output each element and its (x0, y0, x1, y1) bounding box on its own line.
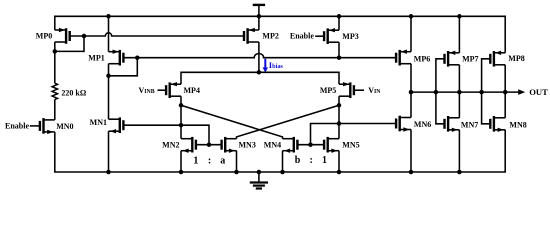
transistor MP4 (166, 82, 181, 98)
wire MP0 gate line to MP2 gate (69, 33, 244, 36)
junction midline dots (409, 90, 414, 95)
svg-text:MN4: MN4 (264, 141, 281, 150)
wire MP1 diode loop (109, 58, 138, 76)
wire MN4-MN5 gate line (298, 144, 324, 146)
svg-text:VINB: VINB (139, 86, 155, 95)
svg-text:MN8: MN8 (509, 120, 526, 129)
svg-text:OUT: OUT (529, 87, 548, 97)
wire MP8-MN8 gate tie (482, 59, 491, 124)
output arrow OUT (518, 89, 525, 95)
wire MN3 source to rail (236, 151, 238, 172)
svg-text:VIN: VIN (368, 86, 381, 95)
svg-text::: : (208, 155, 211, 166)
wire cross-couple node A to MN4 drain (181, 105, 283, 138)
svg-text:MN3: MN3 (239, 141, 256, 150)
wire cross-couple node B to MN3 drain (237, 105, 340, 138)
wire ground bottom rail (55, 130, 505, 172)
svg-text:MN1: MN1 (90, 118, 107, 127)
transistor MN6 (396, 116, 411, 132)
wire tail current box (181, 72, 339, 84)
wire node B to MN6 gate (339, 123, 396, 125)
svg-text::: : (310, 155, 313, 166)
svg-text:MN5: MN5 (342, 141, 359, 150)
transistor MP3 (324, 28, 339, 44)
transistor MN8 (490, 116, 505, 132)
node B junction dots (337, 103, 342, 108)
wire MN5 source to rail (338, 151, 340, 172)
wire MP7 drain to midline (458, 65, 460, 92)
transistor MN2 (181, 137, 196, 153)
svg-text:Ibias: Ibias (269, 60, 284, 70)
wire MP1 source to VDD (108, 16, 110, 51)
svg-text:Enable: Enable (5, 121, 29, 130)
wire MN1 drain to MP1 drain (108, 76, 110, 119)
power VDD supply tap (253, 4, 265, 6)
junction MP3 drain on bias line (337, 55, 342, 60)
svg-text:MN7: MN7 (461, 120, 478, 129)
wire MN2-MN3 gate line (197, 144, 222, 146)
wire MN4 source to rail (282, 151, 284, 172)
transistor MP2 (244, 28, 259, 44)
svg-text:b: b (295, 155, 301, 166)
wire bias line MP1 gate to MP6 gate (124, 54, 396, 58)
svg-text:MP7: MP7 (462, 54, 478, 63)
wire resistor to MN0 drain (54, 99, 56, 120)
svg-text:MP2: MP2 (262, 32, 278, 41)
svg-text:220 kΩ: 220 kΩ (61, 88, 86, 97)
node MP0 gate-drain tie (55, 36, 84, 51)
svg-text:MP6: MP6 (414, 55, 430, 64)
svg-text:MN2: MN2 (162, 141, 179, 150)
wire MP1 drain node (108, 64, 110, 76)
wire VINB to MP4 gate (158, 89, 167, 91)
wire MP3 drain to bias line (338, 42, 340, 58)
transistor MP8 (490, 51, 505, 67)
wire MP8 drain to midline (504, 65, 506, 92)
svg-text:a: a (220, 155, 225, 166)
wire MP7 source to VDD (458, 16, 460, 53)
junction bottom rail dots (106, 170, 111, 175)
svg-text:Enable: Enable (290, 32, 314, 41)
transistor MP5 (339, 82, 354, 98)
wire MN6 source to rail (410, 130, 412, 173)
wire MP3 source to VDD (338, 16, 340, 30)
wire MN7 source to rail (458, 130, 460, 172)
node A junction dots (179, 103, 184, 108)
transistor MP0 (55, 28, 70, 44)
svg-text:MP0: MP0 (36, 32, 52, 41)
svg-text:1: 1 (322, 155, 327, 166)
transistor MP1 (109, 50, 124, 66)
transistor MN1 (109, 117, 124, 133)
wire MN1 source to ground rail (108, 131, 110, 172)
wire MP6 drain to midline (410, 64, 412, 92)
wire MN6 drain to midline (410, 92, 412, 117)
wire Enable to MP3 gate (315, 35, 324, 37)
wire MP7-MN7 gate tie (436, 59, 445, 124)
wire MN7 drain to midline (458, 92, 460, 118)
wire MN4 gate loop to node B (311, 124, 340, 145)
wire MP2 drain to tail node (258, 42, 260, 72)
wire MP5 gate to VIN (354, 89, 364, 91)
wire MN8 drain to midline (504, 92, 506, 118)
transistor MP6 (396, 50, 411, 66)
junction VDD rail dots (106, 14, 111, 19)
svg-text:MP5: MP5 (320, 86, 336, 95)
transistor MN3 (222, 137, 237, 153)
wire output midline (411, 91, 519, 93)
wire MP6 source to VDD (410, 16, 412, 51)
wire MN2 source to rail (180, 151, 182, 172)
svg-text:MN6: MN6 (414, 120, 431, 129)
svg-text:MP3: MP3 (342, 32, 358, 41)
wire Enable to MN0 gate (30, 125, 40, 127)
wire MP4 drain to MN2 drain (180, 96, 182, 139)
transistor MN5 (324, 137, 339, 153)
svg-text:MP8: MP8 (508, 54, 524, 63)
transistor MN4 (283, 137, 298, 153)
transistor MN0 (40, 118, 55, 134)
svg-text:1: 1 (193, 155, 198, 166)
wire MP5 drain to MN5 drain (338, 96, 340, 139)
transistor MN7 (445, 116, 460, 132)
svg-text:MN0: MN0 (56, 122, 73, 131)
wire MN2 diode loop (181, 125, 209, 145)
svg-text:MP4: MP4 (184, 86, 200, 95)
wire VDD top rail (55, 16, 505, 53)
resistor R1 220k (52, 83, 57, 99)
transistor MP7 (445, 51, 460, 67)
ground symbol (258, 172, 260, 181)
wire MN1 gate line to node A (124, 124, 181, 126)
svg-text:MP1: MP1 (88, 54, 104, 63)
current arrow Ibias (264, 59, 266, 68)
wire MP0 drain to resistor (54, 42, 56, 83)
